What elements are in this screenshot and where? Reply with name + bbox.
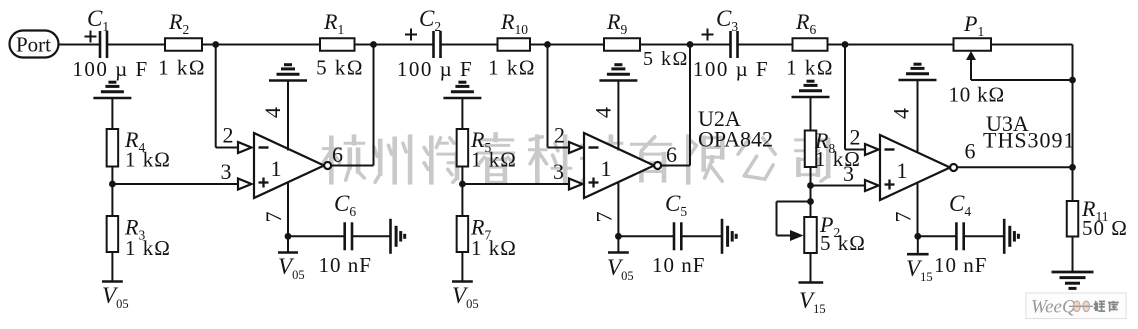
svg-text:1: 1 — [601, 156, 612, 181]
svg-text:5 kΩ: 5 kΩ — [820, 231, 866, 255]
svg-text:OPA842: OPA842 — [698, 127, 773, 152]
svg-text:4: 4 — [260, 107, 285, 118]
svg-text:WeeQ: WeeQ — [1031, 297, 1076, 318]
svg-text:5 kΩ: 5 kΩ — [643, 48, 689, 70]
svg-text:4: 4 — [591, 107, 616, 118]
svg-text:100 µ F: 100 µ F — [72, 57, 148, 81]
svg-text:100 µ F: 100 µ F — [693, 57, 769, 81]
svg-text:THS3091: THS3091 — [983, 128, 1076, 153]
svg-text:50 Ω: 50 Ω — [1082, 216, 1128, 240]
svg-text:1 kΩ: 1 kΩ — [786, 56, 834, 80]
svg-text:100 µ F: 100 µ F — [397, 57, 473, 81]
svg-text:1 kΩ: 1 kΩ — [158, 56, 206, 80]
svg-text:1 kΩ: 1 kΩ — [471, 148, 517, 172]
svg-text:7: 7 — [261, 212, 286, 223]
svg-text:2: 2 — [850, 125, 861, 150]
svg-text:3: 3 — [553, 159, 564, 184]
svg-text:6: 6 — [965, 139, 976, 164]
svg-text:4: 4 — [889, 108, 914, 119]
svg-text:10 nF: 10 nF — [934, 253, 987, 277]
svg-text:3: 3 — [221, 159, 232, 184]
svg-text:2: 2 — [223, 123, 234, 148]
svg-text:1 kΩ: 1 kΩ — [488, 56, 536, 80]
svg-text:1 kΩ: 1 kΩ — [125, 236, 171, 260]
svg-text:6: 6 — [332, 142, 343, 167]
svg-text:Port: Port — [16, 33, 51, 57]
svg-text:7: 7 — [891, 212, 916, 223]
svg-text:7: 7 — [592, 212, 617, 223]
svg-text:10 kΩ: 10 kΩ — [949, 83, 1005, 107]
svg-text:1 kΩ: 1 kΩ — [471, 236, 517, 260]
svg-text:10 nF: 10 nF — [652, 253, 705, 277]
svg-text:10 nF: 10 nF — [319, 253, 372, 277]
svg-text:1: 1 — [271, 156, 282, 181]
svg-text:3: 3 — [843, 161, 854, 186]
svg-text:1 kΩ: 1 kΩ — [125, 148, 171, 172]
svg-text:2: 2 — [554, 123, 565, 148]
svg-text:6: 6 — [666, 142, 677, 167]
svg-text:1: 1 — [897, 158, 908, 183]
svg-text:5 kΩ: 5 kΩ — [316, 56, 364, 80]
